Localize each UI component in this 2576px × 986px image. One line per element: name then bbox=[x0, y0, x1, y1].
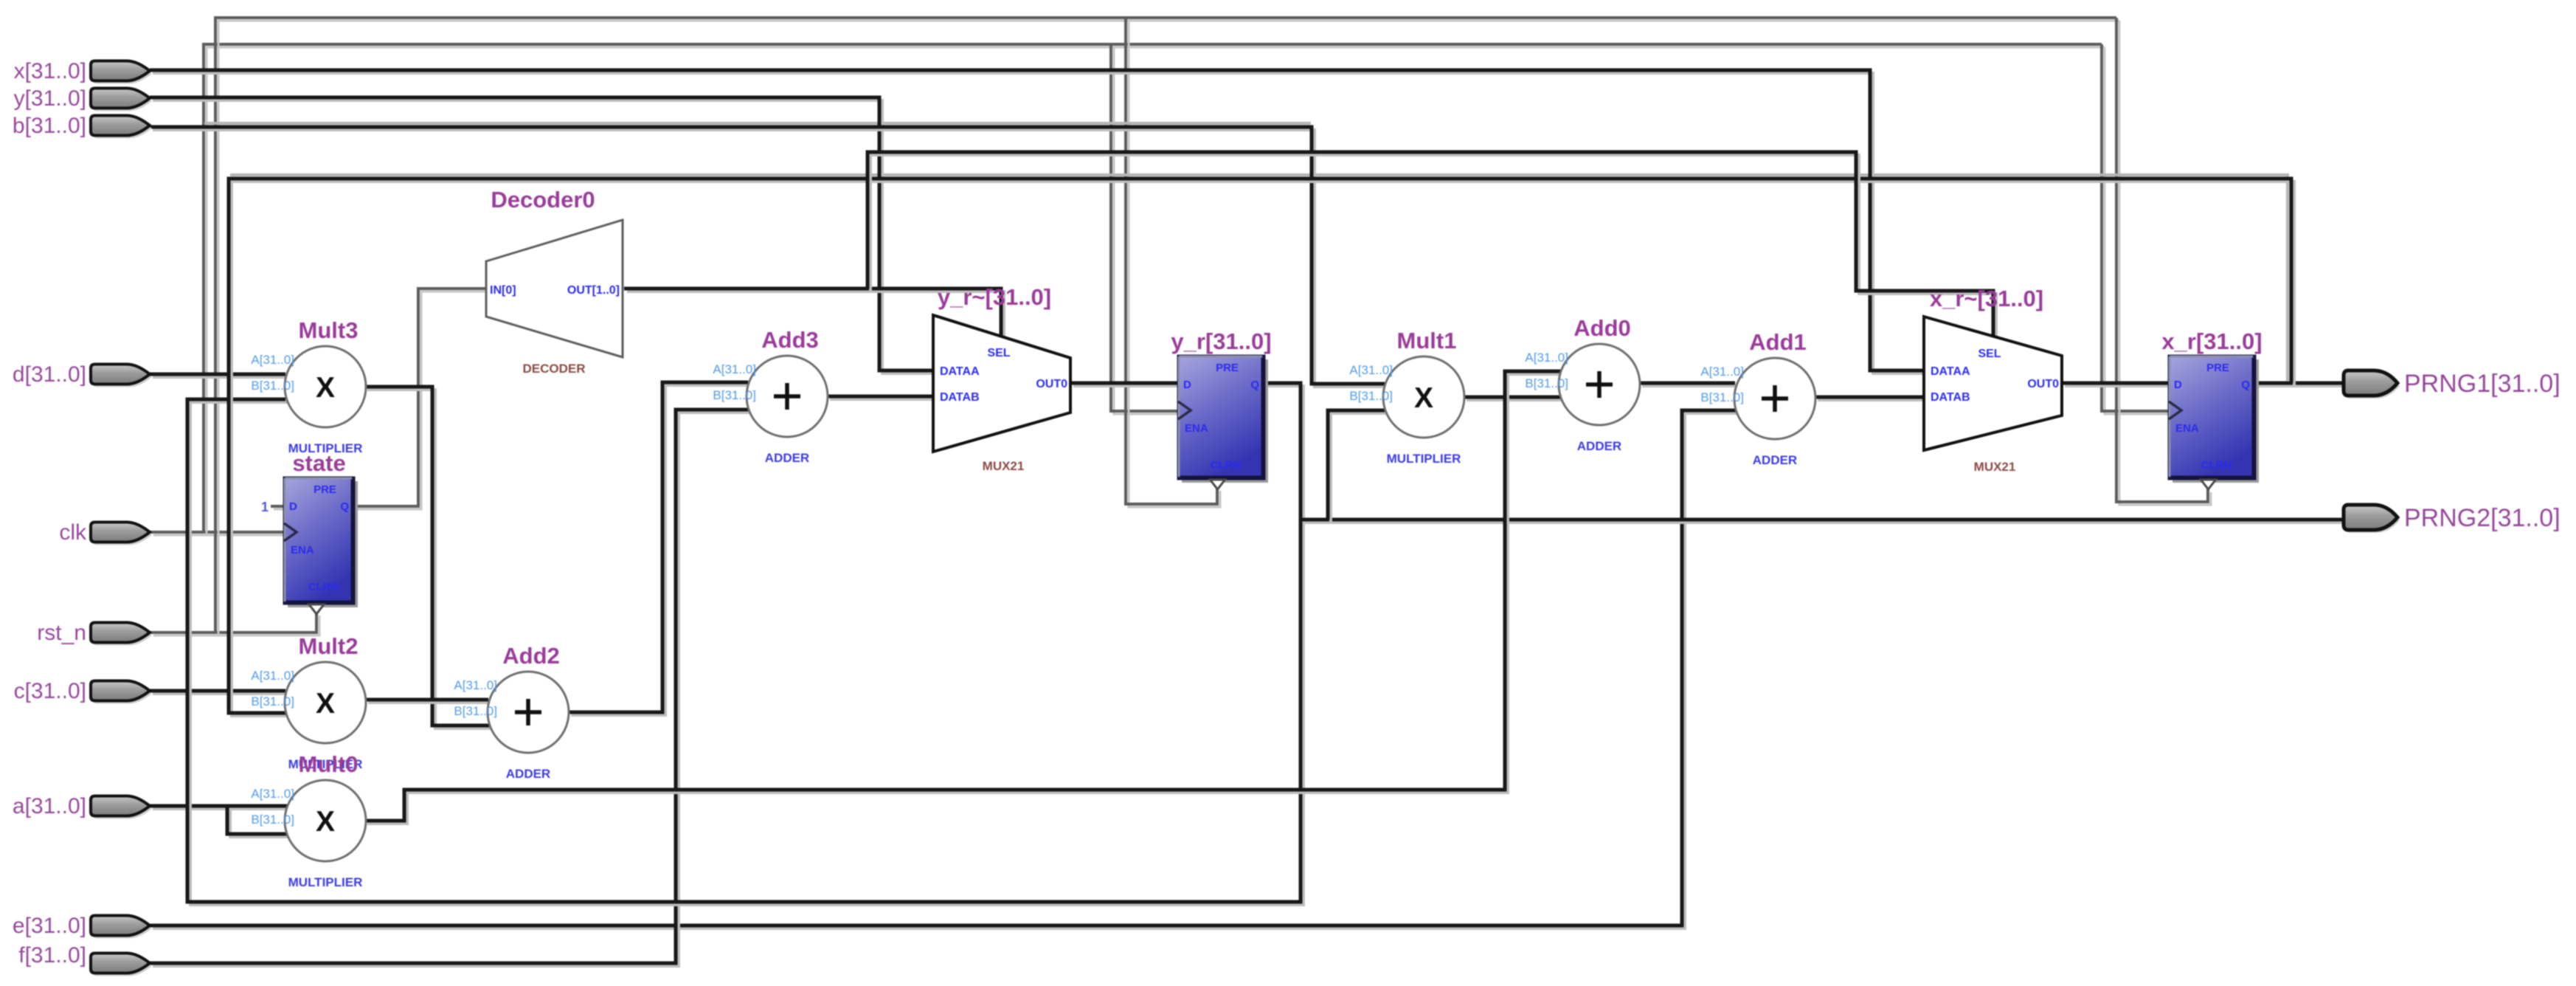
svg-text:f[31..0]: f[31..0] bbox=[18, 943, 86, 968]
svg-text:X: X bbox=[316, 806, 335, 838]
svg-text:B[31..0]: B[31..0] bbox=[1349, 389, 1393, 403]
svg-text:PRE: PRE bbox=[1216, 362, 1239, 374]
svg-text:Add2: Add2 bbox=[502, 643, 560, 669]
svg-text:1: 1 bbox=[261, 500, 269, 514]
svg-text:Mult0: Mult0 bbox=[299, 751, 359, 777]
svg-text:A[31..0]: A[31..0] bbox=[251, 787, 294, 801]
wire rst_n riser and top run bbox=[215, 18, 2119, 635]
svg-text:clk: clk bbox=[59, 520, 87, 545]
wire x_r Q to PRNG1 bbox=[2255, 383, 2346, 386]
svg-text:X: X bbox=[316, 688, 335, 720]
svg-text:x_r~[31..0]: x_r~[31..0] bbox=[1930, 286, 2043, 311]
svg-text:MUX21: MUX21 bbox=[983, 459, 1025, 473]
wire c bus to Mult2 A bbox=[150, 691, 288, 694]
multiplier Mult0 bbox=[251, 751, 366, 889]
svg-text:PRNG1[31..0]: PRNG1[31..0] bbox=[2404, 370, 2561, 398]
output pin PRNG2[31..0] bbox=[2344, 504, 2561, 533]
svg-text:CLRN: CLRN bbox=[2201, 459, 2232, 472]
wire Add0 out to Add1 A bbox=[1639, 383, 1738, 386]
wire clk drop to y_r clock bbox=[1111, 44, 1181, 414]
svg-text:B[31..0]: B[31..0] bbox=[1700, 390, 1744, 404]
input pin b[31..0] bbox=[13, 114, 152, 139]
wire x bus to MUX x_r~ DATAA bbox=[150, 70, 1928, 373]
svg-text:OUT0: OUT0 bbox=[2027, 378, 2059, 390]
wire state Q to decoder IN bbox=[354, 289, 489, 509]
svg-text:y_r~[31..0]: y_r~[31..0] bbox=[938, 284, 1051, 310]
svg-text:A[31..0]: A[31..0] bbox=[1349, 363, 1393, 377]
svg-text:PRNG2[31..0]: PRNG2[31..0] bbox=[2404, 504, 2561, 532]
svg-text:CLRN: CLRN bbox=[1211, 459, 1242, 472]
wire f bus to Add3 B bbox=[150, 410, 751, 966]
svg-text:ADDER: ADDER bbox=[1577, 439, 1621, 453]
wire Mult3 out to Add2 B bbox=[364, 387, 492, 728]
wire y_r Q feedback to Mult3 B bbox=[187, 383, 1303, 905]
adder Add0 bbox=[1525, 315, 1640, 453]
wire Add1 out to MUX x_r~ DATAB bbox=[1815, 397, 1928, 400]
wire MUX y_r~ out to y_r D bbox=[1070, 383, 1181, 386]
input pin clk bbox=[59, 520, 152, 545]
svg-text:SEL: SEL bbox=[1978, 348, 2001, 360]
wire clk net bbox=[150, 532, 287, 535]
svg-text:Add3: Add3 bbox=[761, 327, 819, 353]
svg-text:X: X bbox=[1414, 382, 1433, 414]
svg-text:CLRN: CLRN bbox=[308, 581, 339, 593]
svg-text:B[31..0]: B[31..0] bbox=[454, 704, 497, 718]
mux y_r~[31..0] bbox=[933, 284, 1070, 473]
svg-text:A[31..0]: A[31..0] bbox=[1700, 365, 1744, 379]
svg-text:B[31..0]: B[31..0] bbox=[251, 694, 294, 709]
wire clk riser and top run bbox=[204, 44, 2105, 535]
flip-flop state bbox=[284, 450, 358, 614]
multiplier Mult1 bbox=[1349, 328, 1464, 466]
input pin a[31..0] bbox=[13, 794, 152, 819]
svg-text:SEL: SEL bbox=[987, 347, 1010, 359]
wire e bus to Add1 B bbox=[150, 410, 1739, 928]
svg-text:D: D bbox=[1183, 379, 1191, 391]
multiplier Mult3 bbox=[251, 317, 366, 455]
svg-text:DATAB: DATAB bbox=[940, 391, 980, 404]
wire state D constant stub bbox=[271, 506, 287, 509]
wire rst_n net bbox=[150, 613, 319, 635]
input pin c[31..0] bbox=[14, 679, 152, 704]
flip-flop x_r[31..0] bbox=[2161, 328, 2262, 489]
wire Mult0 out to Add0 A bbox=[364, 371, 1564, 824]
wire Add2 out to Add3 A bbox=[568, 382, 751, 715]
svg-text:ADDER: ADDER bbox=[765, 451, 809, 465]
svg-text:A[31..0]: A[31..0] bbox=[1525, 351, 1568, 365]
svg-text:b[31..0]: b[31..0] bbox=[13, 114, 86, 138]
flip-flop y_r[31..0] bbox=[1171, 328, 1271, 489]
svg-text:A[31..0]: A[31..0] bbox=[713, 362, 756, 376]
svg-text:B[31..0]: B[31..0] bbox=[1525, 376, 1568, 390]
wire b bus to Mult1 A bbox=[150, 127, 1388, 387]
input pin e[31..0] bbox=[13, 914, 152, 939]
wire a bus stub to Mult0 B bbox=[227, 806, 290, 837]
svg-text:y[31..0]: y[31..0] bbox=[14, 86, 86, 111]
svg-text:rst_n: rst_n bbox=[37, 621, 86, 645]
svg-text:Mult2: Mult2 bbox=[299, 633, 359, 659]
wire x_r Q feedback to Mult2 B bbox=[229, 179, 2294, 716]
svg-text:x_r[31..0]: x_r[31..0] bbox=[2161, 328, 2262, 354]
svg-text:Mult1: Mult1 bbox=[1397, 328, 1457, 354]
svg-text:MULTIPLIER: MULTIPLIER bbox=[288, 875, 363, 889]
wire d bus to Mult3 A bbox=[150, 374, 288, 377]
svg-text:Add1: Add1 bbox=[1749, 329, 1807, 355]
svg-text:MULTIPLIER: MULTIPLIER bbox=[1387, 452, 1461, 466]
svg-text:ENA: ENA bbox=[291, 544, 314, 556]
svg-text:B[31..0]: B[31..0] bbox=[251, 379, 294, 393]
svg-text:Decoder0: Decoder0 bbox=[491, 187, 595, 213]
wire PRNG2 branch to Mult1 B bbox=[1328, 410, 1388, 523]
input pin d[31..0] bbox=[13, 362, 152, 387]
multiplier Mult2 bbox=[251, 633, 366, 771]
svg-text:D: D bbox=[2174, 379, 2182, 391]
svg-text:x[31..0]: x[31..0] bbox=[14, 59, 86, 83]
wire clk drop to x_r clock bbox=[2102, 44, 2172, 414]
svg-text:PRE: PRE bbox=[2206, 362, 2229, 374]
svg-text:a[31..0]: a[31..0] bbox=[13, 794, 86, 818]
input pin x[31..0] bbox=[14, 59, 152, 84]
svg-text:ADDER: ADDER bbox=[1753, 453, 1797, 467]
svg-text:DATAA: DATAA bbox=[940, 365, 980, 378]
wire decoder OUT to MUX y_r~ SEL bbox=[624, 289, 1004, 339]
wire rst_n drop to x_r CLRN bbox=[2116, 18, 2211, 505]
wire gray companion above b bus bbox=[204, 122, 1311, 125]
svg-text:A[31..0]: A[31..0] bbox=[251, 669, 294, 683]
wire rst_n drop to y_r CLRN bbox=[1126, 18, 1220, 507]
svg-text:B[31..0]: B[31..0] bbox=[251, 813, 294, 827]
wire MUX x_r~ out to x_r D bbox=[2062, 383, 2172, 386]
wire y_r Q to PRNG2 bbox=[1301, 520, 2346, 523]
svg-text:DATAA: DATAA bbox=[1931, 365, 1970, 378]
svg-text:y_r[31..0]: y_r[31..0] bbox=[1171, 328, 1271, 354]
svg-text:A[31..0]: A[31..0] bbox=[251, 353, 294, 367]
wire gray companion above x_r feedback bbox=[230, 175, 2288, 381]
svg-text:e[31..0]: e[31..0] bbox=[13, 914, 86, 938]
svg-text:Mult3: Mult3 bbox=[299, 317, 359, 343]
wire Add3 out to MUX y_r~ DATAB bbox=[827, 396, 936, 399]
wire y bus to MUX y_r~ DATAA bbox=[150, 97, 936, 373]
svg-text:d[31..0]: d[31..0] bbox=[13, 362, 86, 387]
decoder Decoder0 bbox=[486, 187, 623, 376]
wire Mult2 out to Add2 A bbox=[365, 700, 491, 703]
input pin y[31..0] bbox=[14, 86, 152, 111]
svg-text:OUT0: OUT0 bbox=[1036, 378, 1067, 390]
svg-text:ENA: ENA bbox=[2175, 422, 2199, 435]
output pin PRNG1[31..0] bbox=[2344, 370, 2561, 399]
svg-text:Q: Q bbox=[2241, 379, 2250, 391]
svg-text:A[31..0]: A[31..0] bbox=[454, 678, 497, 692]
wire decoder OUT branch to MUX x_r~ SEL bbox=[868, 152, 1996, 339]
svg-text:D: D bbox=[289, 500, 297, 513]
svg-text:ENA: ENA bbox=[1185, 422, 1208, 435]
svg-text:ADDER: ADDER bbox=[506, 767, 550, 781]
wire Mult1 out to Add0 B bbox=[1464, 397, 1563, 400]
svg-text:X: X bbox=[316, 372, 335, 404]
adder Add3 bbox=[713, 327, 828, 465]
mux x_r~[31..0] bbox=[1924, 286, 2062, 474]
svg-text:DECODER: DECODER bbox=[522, 362, 585, 376]
svg-text:DATAB: DATAB bbox=[1931, 391, 1970, 404]
svg-text:B[31..0]: B[31..0] bbox=[713, 388, 756, 402]
wire a bus to Mult0 A bbox=[150, 806, 290, 809]
svg-text:Add0: Add0 bbox=[1573, 315, 1631, 341]
svg-text:Q: Q bbox=[1250, 379, 1259, 391]
adder Add1 bbox=[1700, 329, 1815, 467]
svg-text:OUT[1..0]: OUT[1..0] bbox=[567, 284, 620, 297]
svg-text:IN[0]: IN[0] bbox=[490, 284, 516, 297]
svg-text:c[31..0]: c[31..0] bbox=[14, 679, 86, 703]
svg-text:Q: Q bbox=[340, 500, 349, 513]
svg-text:PRE: PRE bbox=[314, 483, 336, 496]
input pin rst_n bbox=[37, 621, 152, 646]
adder Add2 bbox=[454, 643, 569, 781]
svg-text:state: state bbox=[292, 450, 345, 476]
input pin f[31..0] bbox=[18, 943, 152, 976]
svg-text:MUX21: MUX21 bbox=[1974, 460, 2016, 474]
